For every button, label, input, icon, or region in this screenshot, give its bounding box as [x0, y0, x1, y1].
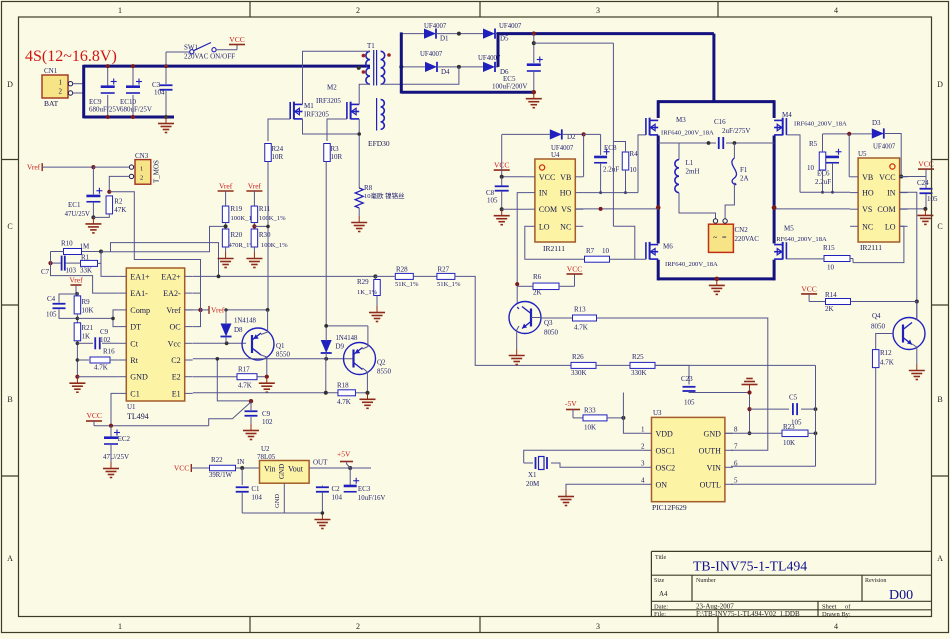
svg-text:330K: 330K — [631, 369, 647, 377]
svg-text:OUTH: OUTH — [699, 446, 721, 455]
svg-text:100K_1%: 100K_1% — [261, 242, 288, 249]
svg-text:1N4148: 1N4148 — [336, 335, 359, 342]
svg-text:Q1: Q1 — [276, 342, 285, 350]
svg-text:10: 10 — [827, 264, 835, 272]
svg-text:E2: E2 — [172, 373, 181, 382]
svg-text:47U/25V: 47U/25V — [65, 211, 90, 218]
svg-text:R26: R26 — [572, 353, 584, 361]
svg-text:Vin: Vin — [264, 465, 276, 474]
svg-text:EA2-: EA2- — [163, 289, 181, 298]
svg-text:3: 3 — [596, 6, 600, 15]
svg-text:680uF/25V: 680uF/25V — [89, 106, 121, 114]
svg-text:U5: U5 — [858, 150, 867, 158]
svg-text:VCC: VCC — [87, 411, 102, 420]
svg-text:VS: VS — [561, 205, 571, 214]
svg-text:C2: C2 — [332, 485, 341, 493]
svg-text:U2: U2 — [261, 445, 270, 453]
svg-text:D3: D3 — [872, 119, 881, 127]
svg-text:8050: 8050 — [871, 323, 886, 331]
svg-text:F1: F1 — [740, 166, 748, 174]
svg-text:X1: X1 — [528, 471, 537, 479]
svg-text:R8: R8 — [364, 184, 373, 192]
svg-text:Vref: Vref — [219, 182, 233, 191]
svg-text:M6: M6 — [663, 243, 673, 251]
svg-text:IN: IN — [237, 458, 244, 466]
svg-text:7: 7 — [734, 442, 738, 450]
svg-text:F:\TB-INV75-1-TL494-V02_1.DDB: F:\TB-INV75-1-TL494-V02_1.DDB — [696, 610, 800, 618]
svg-text:R27: R27 — [438, 266, 450, 274]
svg-text:8050: 8050 — [544, 329, 559, 337]
svg-text:1: 1 — [641, 425, 645, 433]
svg-text:Comp: Comp — [130, 306, 150, 315]
svg-text:EC2: EC2 — [118, 435, 131, 443]
svg-text:C4: C4 — [47, 295, 56, 303]
svg-text:R5: R5 — [809, 140, 818, 148]
svg-text:51K_1%: 51K_1% — [395, 281, 419, 288]
svg-text:78L05: 78L05 — [257, 453, 276, 461]
svg-text:1K_1%: 1K_1% — [357, 289, 378, 296]
svg-text:R21: R21 — [82, 324, 94, 332]
svg-text:LO: LO — [885, 222, 896, 231]
svg-text:Drawn By:: Drawn By: — [822, 611, 851, 618]
svg-text:C: C — [937, 222, 942, 231]
svg-text:IR2111: IR2111 — [860, 243, 882, 252]
svg-text:IRF640_200V_18A: IRF640_200V_18A — [774, 236, 827, 243]
svg-text:M3: M3 — [676, 116, 686, 124]
svg-text:T1: T1 — [367, 42, 375, 50]
svg-text:Q3: Q3 — [544, 319, 553, 327]
svg-text:IRF640_200V_18A: IRF640_200V_18A — [665, 261, 718, 268]
svg-text:HO: HO — [560, 189, 572, 198]
svg-text:M2: M2 — [327, 84, 337, 92]
svg-text:VCC: VCC — [567, 265, 582, 274]
svg-text:VCC: VCC — [539, 173, 555, 182]
svg-text:SW1: SW1 — [184, 44, 199, 52]
svg-text:8: 8 — [734, 425, 738, 433]
svg-text:47K: 47K — [114, 206, 126, 214]
svg-text:UF4007: UF4007 — [424, 23, 447, 30]
svg-text:OUT: OUT — [313, 459, 328, 467]
svg-text:VCC: VCC — [879, 173, 895, 182]
svg-text:R20: R20 — [231, 231, 243, 239]
svg-text:EFD30: EFD30 — [368, 139, 390, 148]
svg-text:R29: R29 — [357, 278, 369, 286]
svg-text:IRF3205: IRF3205 — [304, 111, 329, 119]
svg-text:-5V: -5V — [565, 399, 577, 408]
svg-text:E1: E1 — [172, 389, 181, 398]
svg-text:R2: R2 — [114, 198, 123, 206]
svg-text:8550: 8550 — [377, 368, 392, 376]
svg-text:M5: M5 — [784, 225, 794, 233]
svg-text:VDD: VDD — [656, 429, 674, 438]
svg-text:U4: U4 — [551, 151, 560, 159]
svg-text:1N4148: 1N4148 — [234, 318, 257, 325]
svg-text:Q4: Q4 — [872, 312, 881, 320]
svg-text:2.2uF: 2.2uF — [603, 166, 619, 174]
svg-text:R24: R24 — [272, 145, 284, 153]
svg-text:R6: R6 — [533, 273, 542, 281]
svg-text:Size: Size — [654, 578, 665, 584]
svg-text:220VAC ON/OFF: 220VAC ON/OFF — [184, 53, 235, 61]
svg-text:R11: R11 — [259, 205, 271, 213]
svg-text:4S(12~16.8V): 4S(12~16.8V) — [25, 48, 117, 65]
svg-text:8550: 8550 — [276, 351, 291, 359]
svg-text:R12: R12 — [880, 349, 892, 357]
svg-text:M1: M1 — [304, 102, 314, 110]
svg-text:R33: R33 — [584, 407, 596, 415]
svg-text:Vref: Vref — [166, 306, 181, 315]
svg-text:~: ~ — [713, 233, 718, 242]
svg-text:105: 105 — [927, 195, 938, 203]
svg-text:102: 102 — [262, 418, 273, 426]
svg-text:C2: C2 — [171, 356, 180, 365]
svg-text:2uF/275V: 2uF/275V — [722, 127, 750, 135]
svg-text:R30: R30 — [259, 231, 271, 239]
svg-text:C23: C23 — [681, 375, 693, 383]
svg-text:CN1: CN1 — [44, 67, 58, 75]
svg-text:C1: C1 — [251, 485, 260, 493]
svg-text:2: 2 — [641, 442, 645, 450]
svg-text:UF4007: UF4007 — [499, 23, 522, 30]
svg-text:39R/1W: 39R/1W — [209, 472, 233, 479]
svg-text:6: 6 — [734, 459, 738, 467]
svg-text:100K_1%: 100K_1% — [259, 215, 286, 222]
svg-text:3: 3 — [596, 622, 600, 631]
svg-text:1: 1 — [59, 79, 63, 87]
svg-text:10R: 10R — [272, 153, 284, 161]
svg-text:GND: GND — [274, 494, 281, 508]
svg-text:4: 4 — [834, 622, 838, 631]
svg-text:Title: Title — [655, 555, 666, 561]
svg-text:10: 10 — [630, 166, 638, 174]
svg-text:D: D — [937, 80, 943, 89]
svg-text:4.7K: 4.7K — [94, 364, 108, 372]
svg-text:100uF/200V: 100uF/200V — [492, 83, 527, 91]
svg-text:Vref: Vref — [27, 163, 41, 172]
svg-text:104: 104 — [154, 89, 165, 97]
svg-text:A: A — [7, 554, 13, 563]
svg-text:Vcc: Vcc — [168, 339, 181, 348]
svg-text:of: of — [845, 603, 851, 610]
svg-text:R13: R13 — [574, 306, 586, 314]
svg-text:2A: 2A — [740, 175, 749, 183]
svg-text:R23: R23 — [783, 423, 795, 431]
svg-text:5: 5 — [734, 476, 738, 484]
svg-text:R16: R16 — [103, 348, 115, 356]
svg-text:CN3: CN3 — [135, 152, 149, 160]
svg-text:EC3: EC3 — [358, 485, 371, 493]
svg-text:D8: D8 — [234, 326, 243, 334]
svg-text:Number: Number — [696, 578, 716, 584]
svg-text:CN2: CN2 — [735, 226, 749, 234]
svg-text:4: 4 — [834, 6, 838, 15]
svg-text:VS: VS — [862, 205, 872, 214]
svg-text:2: 2 — [356, 622, 360, 631]
svg-text:10: 10 — [807, 164, 815, 172]
svg-text:Vref: Vref — [211, 305, 225, 314]
svg-text:33K: 33K — [80, 267, 92, 275]
svg-text:R3: R3 — [331, 145, 340, 153]
svg-text:IRF640_200V_18A: IRF640_200V_18A — [661, 130, 714, 137]
svg-text:1K: 1K — [82, 333, 91, 341]
svg-text:=: = — [722, 233, 727, 242]
svg-text:TL494: TL494 — [127, 412, 149, 421]
svg-text:10: 10 — [602, 247, 610, 255]
svg-text:OUTL: OUTL — [700, 480, 721, 489]
svg-text:D: D — [7, 80, 13, 89]
svg-text:OSC2: OSC2 — [656, 463, 676, 472]
svg-text:220VAC: 220VAC — [735, 235, 760, 243]
svg-text:IN: IN — [539, 189, 548, 198]
svg-text:UF4007: UF4007 — [873, 144, 896, 151]
svg-text:T_MOS: T_MOS — [153, 160, 161, 183]
svg-text:105: 105 — [684, 399, 695, 407]
svg-text:Sheet: Sheet — [822, 603, 837, 610]
svg-text:UF4007: UF4007 — [420, 51, 443, 58]
svg-text:GND: GND — [130, 373, 148, 382]
svg-text:1: 1 — [118, 6, 122, 15]
svg-text:C9: C9 — [100, 328, 109, 336]
svg-text:R19: R19 — [231, 205, 243, 213]
svg-text:330K: 330K — [571, 369, 587, 377]
svg-text:LO: LO — [539, 222, 550, 231]
svg-text:Q2: Q2 — [377, 359, 386, 367]
svg-text:20M: 20M — [526, 480, 540, 488]
svg-text:HO: HO — [862, 189, 874, 198]
svg-text:EC6: EC6 — [817, 170, 830, 178]
svg-text:VCC: VCC — [174, 464, 189, 473]
svg-text:2: 2 — [140, 174, 143, 181]
svg-text:4.7K: 4.7K — [574, 324, 588, 332]
svg-text:R22: R22 — [211, 456, 223, 464]
svg-text:B: B — [7, 395, 12, 404]
svg-text:VIN: VIN — [707, 463, 721, 472]
svg-text:IRF3205: IRF3205 — [316, 97, 341, 105]
svg-text:C16: C16 — [714, 118, 726, 126]
svg-text:GND: GND — [704, 429, 722, 438]
svg-text:Date:: Date: — [654, 603, 668, 610]
svg-text:R15: R15 — [823, 244, 835, 252]
svg-text:IRF640_200V_18A: IRF640_200V_18A — [794, 121, 847, 128]
svg-text:R1: R1 — [81, 254, 90, 262]
svg-text:EA2+: EA2+ — [161, 272, 181, 281]
svg-text:B: B — [937, 395, 942, 404]
svg-text:R10: R10 — [61, 240, 73, 248]
svg-text:D1: D1 — [440, 35, 449, 43]
svg-text:PIC12F629: PIC12F629 — [652, 503, 687, 512]
svg-text:2.2uF: 2.2uF — [815, 178, 831, 186]
svg-text:47U/25V: 47U/25V — [103, 453, 129, 461]
svg-text:COM: COM — [539, 205, 557, 214]
svg-text:104: 104 — [251, 494, 262, 502]
svg-text:D00: D00 — [889, 588, 913, 603]
svg-text:Rt: Rt — [130, 356, 138, 365]
svg-text:10K: 10K — [783, 439, 795, 447]
svg-text:104: 104 — [332, 494, 343, 502]
svg-text:COM: COM — [877, 205, 895, 214]
svg-text:IR2111: IR2111 — [543, 244, 565, 253]
svg-text:2: 2 — [356, 6, 360, 15]
svg-text:TB-INV75-1-TL494: TB-INV75-1-TL494 — [693, 559, 807, 574]
svg-text:105: 105 — [487, 197, 498, 205]
svg-text:1: 1 — [118, 622, 122, 631]
svg-text:680uF/25V: 680uF/25V — [120, 106, 152, 114]
svg-text:+5V: +5V — [337, 450, 351, 459]
svg-text:A4: A4 — [659, 590, 668, 598]
svg-text:C7: C7 — [41, 268, 50, 276]
svg-text:10K: 10K — [584, 424, 596, 432]
svg-text:1M: 1M — [80, 243, 91, 251]
svg-text:10K: 10K — [82, 307, 94, 315]
svg-text:A: A — [937, 554, 943, 563]
svg-text:4.7K: 4.7K — [238, 382, 252, 390]
svg-text:UF4007: UF4007 — [551, 145, 574, 152]
svg-text:VB: VB — [862, 173, 873, 182]
svg-text:10uF/16V: 10uF/16V — [358, 495, 386, 502]
svg-text:C24: C24 — [917, 179, 929, 187]
svg-text:M4: M4 — [782, 111, 792, 119]
svg-text:C: C — [7, 222, 12, 231]
svg-text:C9: C9 — [262, 410, 271, 418]
svg-text:File:: File: — [654, 611, 666, 618]
svg-text:51K_1%: 51K_1% — [437, 281, 461, 288]
svg-text:Revision: Revision — [865, 578, 886, 584]
svg-text:IN: IN — [887, 189, 896, 198]
svg-text:EA1-: EA1- — [130, 289, 148, 298]
svg-text:4.7K: 4.7K — [880, 359, 894, 367]
svg-text:EC1: EC1 — [68, 201, 81, 209]
svg-text:U3: U3 — [653, 409, 662, 417]
svg-text:D4: D4 — [441, 68, 450, 76]
svg-text:R7: R7 — [586, 247, 595, 255]
svg-text:4.7K: 4.7K — [337, 398, 351, 406]
svg-text:U1: U1 — [127, 403, 136, 411]
svg-text:VCC: VCC — [229, 35, 244, 44]
svg-text:VB: VB — [560, 173, 571, 182]
svg-text:2K: 2K — [533, 289, 542, 297]
svg-text:R4: R4 — [630, 150, 639, 158]
svg-text:EA1+: EA1+ — [130, 272, 150, 281]
svg-text:NC: NC — [862, 222, 873, 231]
svg-text:GND: GND — [278, 464, 286, 479]
svg-text:ON: ON — [656, 480, 668, 489]
svg-text:D9: D9 — [336, 343, 345, 351]
svg-text:C1: C1 — [130, 389, 139, 398]
svg-text:EC8: EC8 — [604, 144, 617, 152]
svg-text:R28: R28 — [396, 266, 408, 274]
svg-text:R18: R18 — [337, 382, 349, 390]
svg-text:10毫欧 镍铬丝: 10毫欧 镍铬丝 — [364, 191, 405, 200]
svg-text:2mH: 2mH — [686, 168, 700, 176]
svg-text:DT: DT — [130, 323, 141, 332]
svg-text:D5: D5 — [500, 35, 509, 43]
svg-text:Vref: Vref — [69, 276, 83, 285]
svg-text:Vout: Vout — [288, 465, 304, 474]
svg-text:VCC: VCC — [801, 284, 816, 293]
svg-text:OSC1: OSC1 — [656, 446, 676, 455]
svg-text:105: 105 — [46, 311, 57, 319]
svg-text:4: 4 — [641, 476, 645, 484]
svg-text:R17: R17 — [238, 366, 250, 374]
svg-text:NC: NC — [560, 222, 571, 231]
svg-text:R14: R14 — [825, 291, 837, 299]
svg-text:OC: OC — [169, 323, 180, 332]
svg-text:R9: R9 — [82, 298, 91, 306]
svg-text:R25: R25 — [632, 353, 644, 361]
svg-text:103: 103 — [66, 267, 77, 275]
svg-text:1: 1 — [140, 165, 143, 172]
svg-text:BAT: BAT — [44, 99, 59, 108]
svg-text:Vref: Vref — [248, 182, 262, 191]
svg-text:10R: 10R — [331, 153, 343, 161]
svg-text:L1: L1 — [686, 159, 694, 167]
svg-text:C5: C5 — [789, 394, 798, 402]
svg-text:3: 3 — [641, 459, 645, 467]
svg-text:2K: 2K — [825, 305, 834, 313]
svg-text:Ct: Ct — [130, 339, 138, 348]
svg-text:2: 2 — [59, 88, 63, 96]
